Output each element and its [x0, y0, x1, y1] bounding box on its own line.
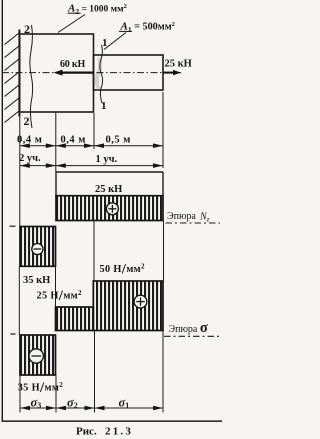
svg-text:2: 2	[24, 22, 30, 36]
Nz negative box	[20, 227, 56, 267]
centerline	[2, 72, 181, 74]
svg-text:2 уч.: 2 уч.	[19, 153, 41, 164]
dim extension x20 bottom	[19, 375, 21, 413]
dimension row 3 sigma zones	[20, 396, 163, 411]
svg-text:Эпюра: Эпюра	[167, 211, 196, 222]
section line 1-1	[100, 37, 108, 112]
wall line	[18, 30, 20, 117]
projection line x55.5 (N to sigma)	[55, 266, 57, 307]
projection line x19.3 (N to sigma)	[18, 266, 20, 335]
force 25 kN	[163, 59, 192, 76]
svg-text:25 кН: 25 кН	[95, 184, 122, 195]
Nz axis left dash	[10, 225, 16, 227]
dim extension line x163 (free end)	[162, 92, 164, 168]
svg-text:0,4 м: 0,4 м	[17, 135, 42, 146]
frame left border	[2, 0, 3, 422]
sigma positive box 25	[56, 307, 94, 331]
label A1 = 500 mm2	[104, 21, 175, 50]
sigma negative box	[20, 335, 56, 375]
svg-text:Рис.: Рис.	[76, 426, 97, 438]
sigma axis left dash	[11, 333, 16, 335]
svg-text:2: 2	[24, 114, 30, 128]
projection line x163.5 (N to sigma)	[163, 221, 165, 282]
projection line x94 (N to sigma)	[93, 221, 95, 282]
sigma value 35	[18, 380, 64, 396]
plus sign Nz	[106, 203, 118, 215]
plus sign sigma	[134, 295, 147, 308]
dim extension x94.5 bottom	[94, 331, 96, 413]
Nz positive box	[56, 196, 163, 221]
svg-text:25 кН: 25 кН	[165, 59, 192, 70]
minus sign Nz	[32, 243, 43, 254]
dim extension line x94 (step)	[93, 113, 95, 149]
dim extension x163 bottom	[162, 331, 164, 413]
wall hatching	[5, 33, 20, 123]
svg-text:1 уч.: 1 уч.	[96, 154, 118, 165]
svg-text:1: 1	[102, 37, 108, 49]
dimension row 1	[17, 135, 163, 149]
Nz diagram outline box	[56, 172, 163, 196]
label Epyura Nz	[166, 211, 221, 224]
svg-text:0,5 м: 0,5 м	[106, 135, 131, 146]
dim extension x56 bottom	[55, 375, 57, 413]
sigma value 50	[100, 262, 146, 278]
label A2 = 1000 mm2	[58, 3, 127, 33]
frame bottom border	[2, 420, 222, 422]
section line 2-2	[24, 22, 33, 128]
sigma positive box 50	[93, 281, 163, 331]
svg-text:A1 = 500мм2: A1 = 500мм2	[120, 21, 175, 35]
svg-text:35 кН: 35 кН	[23, 275, 50, 286]
svg-text:21.3: 21.3	[105, 426, 133, 438]
label Epyura sigma	[164, 320, 220, 336]
bar segment 2 (big block)	[20, 34, 94, 112]
svg-text:1: 1	[101, 100, 107, 112]
sigma value 25	[37, 288, 83, 304]
dim extension line x19.8 (wall)	[19, 116, 21, 227]
dim extension line x55.8 (force point)	[55, 112, 57, 172]
dimension row 2	[19, 153, 163, 168]
minus sign sigma	[29, 349, 43, 363]
scan smudge at junction	[97, 58, 101, 89]
force 60 kN	[54, 59, 94, 76]
bar segment 1 (thin bar)	[94, 55, 164, 90]
svg-text:0,4 м: 0,4 м	[61, 135, 86, 146]
svg-text:60 кН: 60 кН	[60, 59, 85, 70]
